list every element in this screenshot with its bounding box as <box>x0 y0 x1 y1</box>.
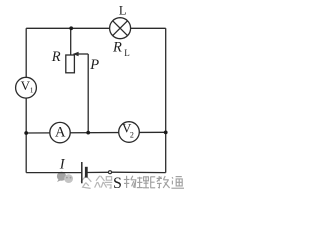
wire left vertical <box>25 28 27 172</box>
svg-text:1: 1 <box>30 85 34 94</box>
voltmeter V1 <box>16 77 37 98</box>
svg-text:R: R <box>112 39 122 55</box>
watermark char 理 <box>137 177 149 188</box>
lamp L <box>110 18 131 39</box>
switch S pivot <box>109 171 112 174</box>
watermark logo bubble left <box>57 172 66 182</box>
label RL <box>112 39 130 58</box>
wire bottom right segment <box>111 171 165 173</box>
wire middle horizontal <box>26 131 166 134</box>
svg-text:L: L <box>124 48 130 58</box>
battery short plate <box>85 167 88 178</box>
watermark char 众 <box>95 176 107 188</box>
watermark char 号 <box>105 177 112 188</box>
svg-text:2: 2 <box>130 131 134 140</box>
wire bottom left segment <box>26 172 82 174</box>
junction dot middle left <box>24 131 28 135</box>
junction dot middle right <box>164 131 168 135</box>
svg-text:R: R <box>51 49 61 65</box>
junction dot middle center <box>86 131 90 135</box>
wire right vertical <box>165 28 167 172</box>
battery long plate <box>81 162 83 183</box>
watermark char 公 <box>81 177 91 189</box>
slider arrow P <box>73 52 89 57</box>
watermark char 物 <box>124 176 136 188</box>
svg-text:S: S <box>113 175 122 192</box>
svg-text:P: P <box>89 57 99 73</box>
wire top horizontal <box>26 27 166 29</box>
voltmeter V2 <box>119 121 140 143</box>
watermark char 通 <box>171 177 184 189</box>
wire rheostat top lead <box>70 28 72 55</box>
resistor R rheostat body <box>66 55 75 73</box>
ammeter A <box>50 122 70 142</box>
wire slider vertical <box>87 54 89 133</box>
wire bottom mid segment battery to switch <box>86 171 108 173</box>
watermark char 教 <box>157 176 170 188</box>
junction dot top <box>69 26 73 30</box>
svg-text:I: I <box>59 156 66 172</box>
svg-text:A: A <box>55 124 66 140</box>
watermark char E <box>150 177 155 188</box>
svg-text:L: L <box>119 4 127 18</box>
watermark logo bubble right <box>64 174 73 183</box>
